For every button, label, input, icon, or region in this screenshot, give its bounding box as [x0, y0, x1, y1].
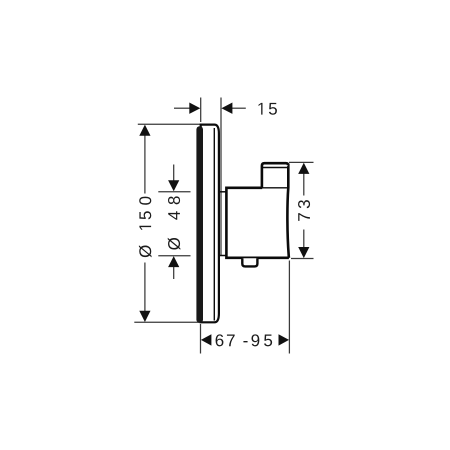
- Ø150 extension line bottom: [134, 321, 200, 323]
- dim 73 extension line bottom: [291, 258, 314, 260]
- Ø48 dimension line below: [173, 267, 175, 279]
- neck top line (between plate and body): [220, 191, 227, 193]
- dim 67-95 text: [216, 334, 273, 346]
- dim 67-95 arrow left: [201, 334, 212, 345]
- dim 67-95 extension line left: [200, 324, 202, 354]
- dim 15 arrow left: [189, 103, 200, 114]
- valve body: [226, 188, 289, 258]
- dim 73 dimension line: [303, 173, 305, 196]
- dim 15 text: [258, 103, 276, 115]
- dim 15 leader lines: [174, 107, 190, 109]
- extension line left of dim 15: [200, 98, 202, 123]
- dim 67-95 arrow right: [279, 334, 290, 345]
- wall plate outline (side view): [201, 125, 219, 323]
- dim 73 arrow up: [298, 163, 309, 174]
- Ø150 text: [139, 197, 152, 258]
- body/handle right silhouette: [287, 164, 289, 258]
- Ø48 dimension line above: [173, 165, 175, 182]
- top part inner line: [263, 167, 287, 169]
- Ø48 extension line top: [158, 191, 190, 193]
- dim 67-95 extension line right: [288, 261, 290, 354]
- dim 15 arrow right: [221, 103, 232, 114]
- wall plate front face (dark band): [196, 126, 203, 323]
- dim 73 extension line top: [289, 161, 314, 163]
- Ø150 extension line top: [138, 123, 200, 125]
- bottom tab: [242, 258, 257, 266]
- Ø48 arrow up (bottom): [168, 256, 179, 267]
- Ø150 dimension line: [144, 135, 146, 194]
- Ø150 arrow down: [139, 311, 150, 322]
- Ø48 extension line bottom: [158, 255, 190, 257]
- top part (stop handle): [262, 163, 288, 187]
- Ø150 arrow up: [139, 125, 150, 136]
- neck bottom line: [220, 255, 227, 257]
- wall plate rim inner line: [213, 128, 215, 321]
- extension line right of dim 15 (runs down along plate back): [220, 98, 222, 256]
- body top inner line (under top part): [261, 187, 288, 189]
- dim 73 text: [298, 200, 310, 221]
- dim 73 arrow down: [298, 247, 309, 258]
- Ø48 arrow down (top): [168, 180, 179, 191]
- Ø48 text: [168, 196, 181, 249]
